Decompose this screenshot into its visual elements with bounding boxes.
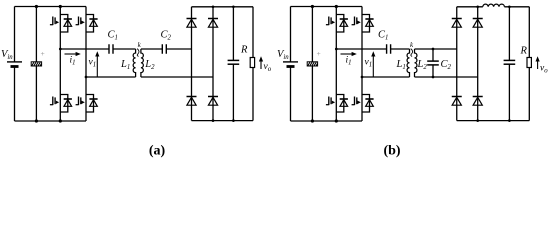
wire load branch a xyxy=(252,7,254,121)
wire bottom rail inverter b xyxy=(291,120,363,122)
arrow i1 b xyxy=(341,52,357,56)
mosfet Q2 b xyxy=(352,15,374,33)
wire leg A main a xyxy=(59,7,61,122)
wire rectifier bottom rail a xyxy=(192,120,254,122)
wire L2 bottom to rectifier leg2 b xyxy=(415,76,478,78)
coupling k arrow a xyxy=(137,49,139,57)
filter capacitor b xyxy=(504,60,516,64)
wire rectifier top rail right part b xyxy=(504,6,529,8)
junction dots a xyxy=(35,5,235,123)
svg-text:+: + xyxy=(41,49,45,58)
wire bottom rail inverter a xyxy=(15,120,87,122)
svg-text:(b): (b) xyxy=(383,143,400,158)
mosfet Q1 a xyxy=(50,15,72,33)
arrow vo a xyxy=(259,56,263,69)
wire return L1 to legB a xyxy=(86,76,136,78)
wire C1 to L1 b xyxy=(391,48,410,50)
arrow v1 b xyxy=(371,51,375,77)
svg-text:R: R xyxy=(240,45,248,56)
resistor R a xyxy=(250,58,254,68)
wire rectifier top rail left part b xyxy=(457,6,483,8)
capacitor C1 b xyxy=(387,44,391,54)
mosfet Q4 a xyxy=(76,95,98,113)
svg-text:(a): (a) xyxy=(149,143,166,158)
arrow i1 a xyxy=(65,52,81,56)
transformer L2 winding b xyxy=(415,49,417,77)
resistor R b xyxy=(527,58,531,68)
battery Vin a xyxy=(7,62,22,67)
junction dots b xyxy=(311,5,511,123)
transformer L1 winding a xyxy=(133,49,135,77)
wire output top a xyxy=(60,48,109,50)
wire C2 branch b xyxy=(432,49,434,77)
arrow vo b xyxy=(536,56,540,69)
svg-text:R: R xyxy=(520,46,528,57)
electrolytic capacitor b xyxy=(307,62,317,66)
diode D1 b xyxy=(452,19,462,28)
diode D3 b xyxy=(452,97,462,106)
arrow v1 a xyxy=(95,51,99,77)
wire rectifier leg2 a xyxy=(212,7,214,121)
wire top rail inverter a xyxy=(15,6,87,8)
wire left rail b xyxy=(290,7,292,122)
wire rectifier leg2 b xyxy=(477,7,479,121)
diode D4 b xyxy=(473,97,483,106)
mosfet Q3 b xyxy=(326,95,348,113)
filter capacitor a xyxy=(228,60,240,64)
wire leg B main b xyxy=(361,7,363,122)
wire L2 top to rectifier b xyxy=(415,48,457,50)
wire leg B main a xyxy=(85,7,87,122)
wire top rail inverter b xyxy=(291,6,363,8)
diode D2 a xyxy=(208,19,218,28)
transformer L2 winding a xyxy=(141,49,143,77)
mosfet Q2 a xyxy=(76,15,98,33)
wire rectifier leg1 b xyxy=(456,7,458,121)
capacitor C2 b xyxy=(427,61,439,65)
wire leg A main b xyxy=(335,7,337,122)
svg-text:+: + xyxy=(317,49,321,58)
capacitor C1 a xyxy=(109,44,113,54)
wire L2 to C2 a xyxy=(141,48,162,50)
wire rectifier top rail a xyxy=(192,6,254,8)
diode D1 a xyxy=(187,19,197,28)
mosfet Q3 a xyxy=(50,95,72,113)
wire load branch b xyxy=(528,7,530,121)
diode D2 b xyxy=(473,19,483,28)
diode D4 a xyxy=(208,97,218,106)
coupling k arrow b xyxy=(411,49,413,57)
wire filter cap branch a xyxy=(232,7,234,121)
electrolytic capacitor a xyxy=(31,62,41,66)
wire C1 to L1 a xyxy=(113,48,136,50)
wire rectifier leg1 a xyxy=(191,7,193,121)
mosfet Q1 b xyxy=(326,15,348,33)
wire left rail a xyxy=(14,7,16,122)
wire return L1 to legB b xyxy=(362,76,410,78)
output inductor b xyxy=(483,4,505,7)
battery Vin b xyxy=(283,62,298,67)
transformer L1 winding b xyxy=(407,49,409,77)
wire dc-link branch a xyxy=(35,7,37,122)
wire rectifier bottom rail b xyxy=(457,120,530,122)
wire output top b xyxy=(336,48,386,50)
wire C2 to rectifier a xyxy=(166,48,191,50)
wire L2 bottom to rectifier leg2 a xyxy=(141,76,213,78)
diode D3 a xyxy=(187,97,197,106)
mosfet Q4 b xyxy=(352,95,374,113)
wire dc-link branch b xyxy=(311,7,313,122)
capacitor C2 a xyxy=(162,44,166,54)
wire filter cap branch b xyxy=(508,7,510,121)
